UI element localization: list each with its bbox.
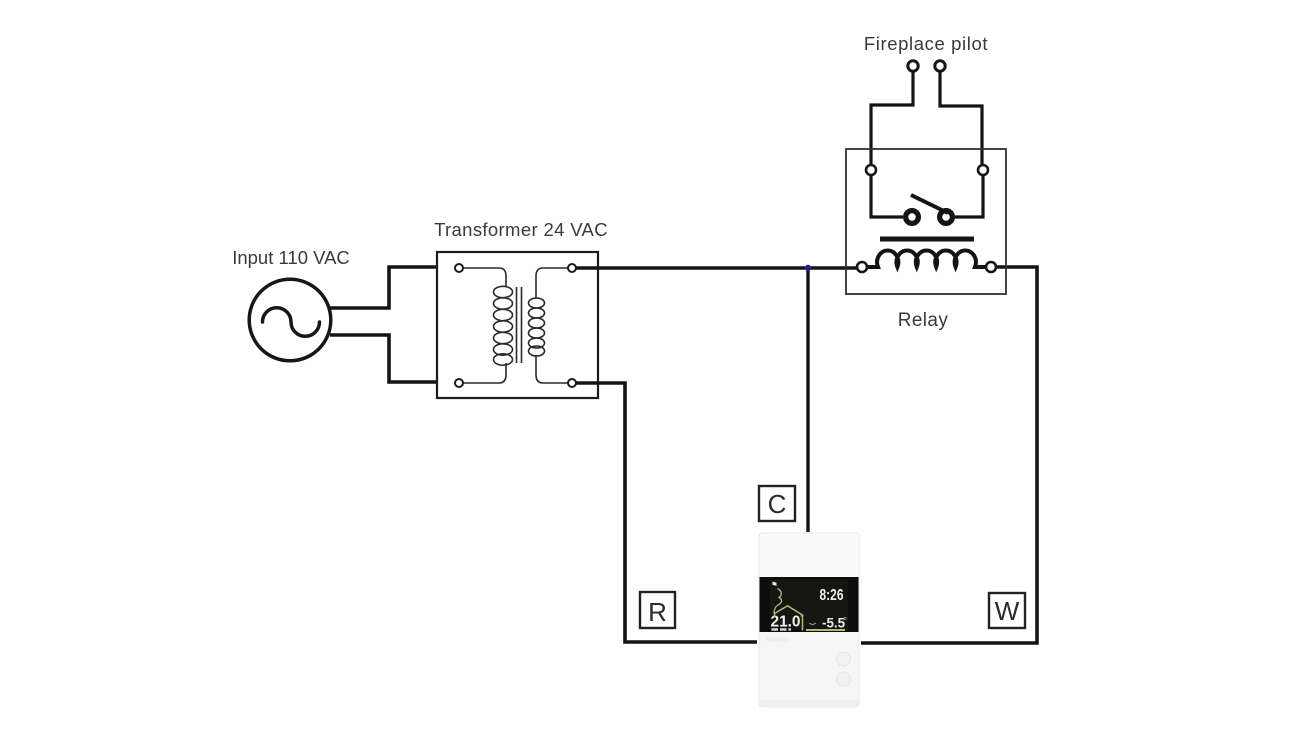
thermostat LCD [760,577,859,632]
switch contact left [906,211,919,224]
svg-text:R: R [648,597,667,627]
wire relay coil right to W terminal run [861,267,1037,643]
wire transformer TR to relay coil (24VAC hot) [576,266,857,269]
transformer terminals [455,264,576,387]
switch blade [911,195,948,213]
LCD heat tick [809,623,816,625]
wire C junction down to thermostat [806,268,809,532]
junction node C (blue dot) [805,265,811,271]
terminal label R [640,592,675,628]
svg-text:o: o [844,616,847,622]
button up [837,652,851,666]
svg-text:8:26: 8:26 [820,587,844,604]
terminal label C [759,486,795,521]
relay coil terminal left [857,262,867,272]
LCD flame icon [774,589,782,614]
svg-text:Transformer 24 VAC: Transformer 24 VAC [434,219,608,240]
svg-text:Relay: Relay [898,310,949,331]
wire pilot right to relay switch [940,72,982,166]
transformer secondary winding [529,268,569,383]
LCD underline left [772,628,792,630]
transformer core [517,287,522,363]
wire transformer BR to R terminal run [576,383,757,642]
relay switch terminal left [866,165,876,175]
wire switch right leg [954,176,983,217]
AC source V1 [249,279,331,361]
fireplace pilot terminal right [935,61,945,71]
LCD mode tick [773,582,777,586]
fireplace pilot terminal left [908,61,918,71]
relay switch terminal right [978,165,988,175]
relay K1 box [846,149,1006,294]
relay coil L1 [866,250,987,267]
transformer primary winding [463,268,513,383]
transformer T1 box [437,252,598,398]
LCD underline right [806,629,845,631]
svg-text:stelpro: stelpro [766,635,789,644]
wire switch left leg [871,176,903,217]
svg-text:C: C [768,489,787,519]
wire source upper to transformer [330,267,455,308]
relay armature bar [880,237,974,242]
svg-text:W: W [995,596,1020,626]
LCD house icon [775,606,803,631]
svg-text:Fireplace pilot: Fireplace pilot [864,33,988,54]
wire source lower to transformer [330,335,455,382]
svg-text:-5.5: -5.5 [822,615,845,631]
relay coil terminal right [986,262,996,272]
terminal label W [989,593,1025,628]
thermostat body [759,533,859,707]
switch contact right [940,211,953,224]
svg-text:Input 110 VAC: Input 110 VAC [232,247,350,268]
button down [837,672,851,686]
wire pilot left to relay switch [871,72,913,166]
